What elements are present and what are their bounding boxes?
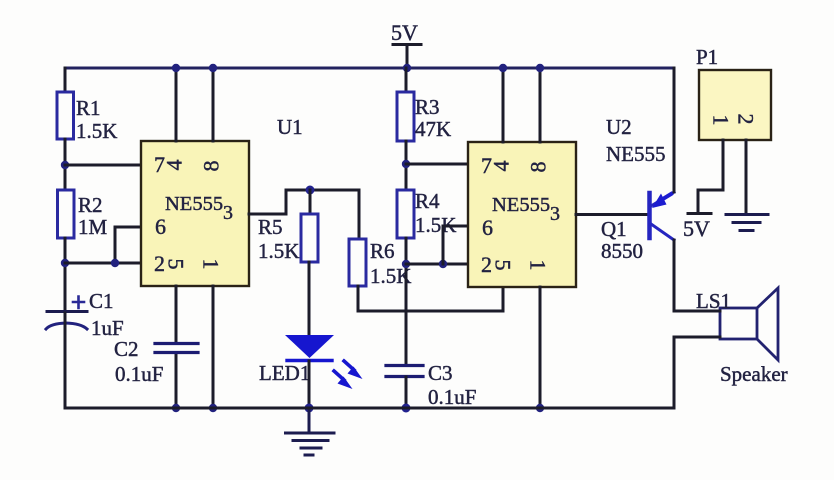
- node junction R1/R2: [61, 161, 69, 169]
- node junction pin4 on rail: [172, 64, 180, 72]
- svg-text:5V: 5V: [391, 20, 418, 45]
- ground below P1: [726, 215, 768, 231]
- wire C1 to bottom rail: [64, 313, 67, 408]
- svg-text:4: 4: [489, 161, 514, 172]
- node junction pin6 stub right: [439, 260, 447, 268]
- svg-text:C1: C1: [89, 289, 114, 313]
- transistor Q1 8550: [650, 192, 675, 240]
- svg-text:C3: C3: [428, 361, 453, 385]
- svg-text:2: 2: [481, 252, 492, 277]
- resistor R3: [397, 92, 414, 141]
- wire LED cathode to bottom rail: [308, 361, 311, 408]
- capacitor C1: [46, 297, 87, 330]
- wire left rail top segment: [64, 68, 67, 92]
- node junction R4 bottom: [402, 260, 410, 268]
- wire U1 pin 8 top stub: [212, 68, 215, 141]
- wire U2 pin 3 to Q1 base: [576, 213, 648, 216]
- svg-text:3: 3: [223, 202, 233, 224]
- LED LED1: [285, 335, 363, 389]
- svg-text:4: 4: [162, 160, 187, 171]
- svg-text:R2: R2: [78, 193, 103, 217]
- svg-text:U2: U2: [606, 115, 632, 139]
- svg-text:5V: 5V: [683, 216, 710, 241]
- wire top 5V rail: [65, 67, 674, 70]
- wire P1 pin 2 down to ground: [745, 140, 748, 214]
- node junction U2 pin1 on bottom rail: [536, 404, 544, 412]
- svg-text:3: 3: [550, 203, 560, 225]
- svg-text:R5: R5: [258, 215, 283, 239]
- svg-text:2: 2: [734, 114, 759, 125]
- node junction U2 pin8 on rail: [536, 64, 544, 72]
- wire U2 pin 1 bottom stub: [539, 287, 542, 408]
- svg-text:5: 5: [164, 259, 189, 270]
- wire Q1 collector down: [673, 240, 676, 311]
- svg-text:8: 8: [199, 161, 224, 172]
- wire U2 pin 6 stub: [443, 226, 468, 264]
- svg-text:Q1: Q1: [601, 217, 627, 241]
- power 5V symbol right: [683, 214, 711, 242]
- svg-text:6: 6: [482, 215, 493, 240]
- wire junction down to R5: [309, 190, 312, 214]
- speaker LS1: [720, 288, 778, 360]
- wire R4 bottom down to C3: [405, 238, 408, 365]
- resistor R6: [349, 239, 366, 286]
- svg-text:Speaker: Speaker: [720, 362, 788, 386]
- ground below LED: [286, 408, 335, 455]
- resistor R4: [397, 190, 414, 238]
- IC U1 NE555 body: [141, 141, 249, 286]
- svg-text:LED1: LED1: [259, 361, 310, 385]
- svg-text:1: 1: [709, 115, 734, 126]
- svg-text:5: 5: [491, 260, 516, 271]
- wire R1 bottom to R2 top: [64, 139, 67, 190]
- svg-text:NE555: NE555: [165, 193, 223, 215]
- wire C3 to bottom rail: [405, 377, 408, 408]
- wire down to R6 top: [358, 190, 361, 239]
- wire P1 pin 1 to 5V symbol: [698, 140, 723, 213]
- node junction 5V on rail: [403, 64, 411, 72]
- wire U1 pin 3 output: [249, 190, 359, 214]
- wire Q1 collector to speaker plus: [674, 310, 720, 313]
- svg-text:R4: R4: [415, 189, 440, 213]
- svg-text:1M: 1M: [78, 215, 108, 239]
- node junction R5 top: [306, 186, 315, 195]
- svg-text:2: 2: [154, 251, 165, 276]
- node junction U2 pin4 on rail: [499, 64, 507, 72]
- wire speaker minus to bottom rail: [674, 337, 720, 408]
- wire R3 bottom to R4 top: [405, 141, 408, 190]
- svg-text:R1: R1: [76, 96, 101, 120]
- svg-text:47K: 47K: [415, 117, 451, 141]
- svg-text:R6: R6: [370, 239, 395, 263]
- wire to U1 pin 7: [65, 164, 141, 167]
- svg-text:NE555: NE555: [492, 194, 550, 216]
- node junction R2/C1: [61, 259, 69, 267]
- svg-text:0.1uF: 0.1uF: [428, 385, 476, 409]
- svg-text:1.5K: 1.5K: [76, 119, 117, 143]
- connector P1: [699, 70, 771, 140]
- node junction pin1 on bottom rail: [209, 404, 217, 412]
- node junction pin8 on rail: [209, 64, 217, 72]
- wire to U2 pin 7: [406, 163, 468, 166]
- wire to U1 pin 2: [65, 262, 141, 265]
- wire rail right end down to Q1 emitter: [673, 68, 676, 192]
- node junction pin6 stub on pin2 wire: [111, 259, 119, 267]
- node junction C2 on bottom rail: [172, 404, 180, 412]
- resistor R5: [301, 214, 318, 262]
- wire R5 bottom to LED anode: [308, 262, 311, 336]
- svg-text:8: 8: [526, 162, 551, 173]
- wire U2 pin 8 top stub: [539, 68, 542, 142]
- capacitor C2: [155, 344, 198, 353]
- svg-text:C2: C2: [114, 337, 139, 361]
- svg-text:0.1uF: 0.1uF: [115, 362, 163, 386]
- wire U1 pin 5 through C2 to rail: [175, 286, 178, 408]
- svg-text:6: 6: [155, 214, 166, 239]
- wire R2 bottom to C1: [64, 238, 67, 313]
- node junction R3/R4: [402, 160, 410, 168]
- wire U1 pin 6 stub: [115, 227, 141, 263]
- wire U1 pin 1 bottom stub: [212, 286, 215, 408]
- wire R6 bottom to U2 pin 5: [358, 286, 503, 311]
- svg-text:LS1: LS1: [696, 289, 731, 313]
- svg-text:R3: R3: [415, 95, 440, 119]
- svg-text:1: 1: [199, 259, 224, 270]
- resistor R1: [57, 92, 74, 139]
- wire U2 pin 4 top stub: [502, 68, 505, 142]
- svg-text:P1: P1: [696, 45, 718, 69]
- power 5V symbol top: [391, 20, 421, 68]
- wire bottom ground rail: [65, 407, 674, 410]
- svg-text:NE555: NE555: [606, 142, 666, 166]
- node junction C3 on bottom rail: [402, 404, 411, 413]
- wire rail down to R3: [405, 68, 408, 92]
- node junction LED on bottom rail: [305, 404, 314, 413]
- svg-text:1.5K: 1.5K: [258, 239, 299, 263]
- svg-text:1: 1: [526, 260, 551, 271]
- svg-text:8550: 8550: [601, 239, 643, 263]
- capacitor C3: [386, 366, 423, 377]
- wire to U2 pin 2: [406, 263, 468, 266]
- resistor R2: [58, 190, 75, 238]
- IC U2 NE555 body: [468, 142, 576, 287]
- svg-text:U1: U1: [277, 115, 303, 139]
- wire U1 pin 4 top stub: [175, 68, 178, 141]
